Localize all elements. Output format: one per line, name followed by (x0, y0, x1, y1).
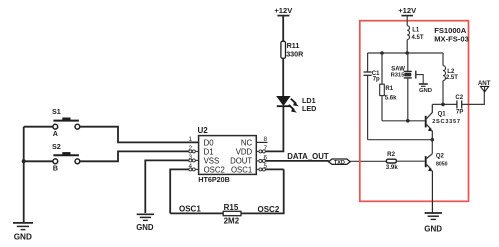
svg-text:C2: C2 (455, 95, 463, 101)
junction L2/collector rail (441, 103, 445, 107)
svg-text:HT6P20B: HT6P20B (198, 175, 230, 184)
svg-text:A: A (53, 129, 58, 138)
svg-text:TXD: TXD (334, 160, 345, 166)
capacitor C1 (364, 53, 381, 140)
svg-text:+12V: +12V (274, 6, 293, 15)
wire +12V into module (406, 16, 408, 26)
svg-text:5: 5 (264, 163, 268, 170)
port TXD (329, 159, 351, 166)
IC U2 HT6P20B (198, 126, 257, 184)
wire emitter rail to C1 (368, 139, 433, 141)
inductor L1 (407, 26, 424, 41)
resistor R2 (386, 151, 425, 171)
LED LD1 (277, 96, 317, 113)
switch S1 (52, 107, 80, 138)
svg-text:2: 2 (189, 145, 193, 152)
svg-text:L1: L1 (412, 27, 420, 33)
transistor Q2 8050 (426, 154, 448, 213)
pin 8 stub NC (256, 136, 267, 143)
svg-text:D1: D1 (204, 147, 214, 156)
wire Q1 emitter to Q2 collector (431, 140, 433, 154)
svg-text:VDD: VDD (236, 147, 253, 156)
junction L1/SAW/top rail (405, 51, 409, 55)
svg-text:+12V: +12V (398, 6, 417, 15)
svg-text:8: 8 (264, 136, 268, 143)
svg-text:R15: R15 (224, 203, 239, 212)
svg-text:R1: R1 (385, 86, 393, 92)
ground GND (SAW case) (419, 84, 432, 94)
svg-text:MX-FS-03: MX-FS-03 (434, 35, 469, 44)
junction Q1 emitter / C1 rail (431, 138, 435, 142)
svg-text:B: B (53, 164, 58, 173)
SAW case electrode to GND (416, 71, 423, 84)
svg-text:4: 4 (189, 163, 193, 170)
svg-text:VSS: VSS (204, 156, 220, 165)
pin 7 pads (256, 145, 267, 153)
svg-text:DOUT: DOUT (230, 156, 252, 165)
wire S1 left terminal to rail (24, 126, 53, 128)
transistor Q1 2SC3357 (426, 104, 461, 139)
svg-text:2SC3357: 2SC3357 (432, 119, 461, 125)
svg-text:3.9k: 3.9k (386, 164, 399, 171)
svg-text:S2: S2 (52, 142, 61, 151)
wire Q1 base rail (382, 120, 425, 122)
svg-text:OSC1: OSC1 (179, 204, 201, 213)
svg-text:SAW: SAW (391, 66, 405, 72)
power +12V (over R11) (274, 6, 293, 16)
svg-text:LED: LED (302, 104, 316, 113)
wire S2 to pin 2 of U2 (80, 151, 189, 161)
wire TXD to R2 (350, 160, 386, 162)
svg-text:OSC2: OSC2 (204, 165, 225, 174)
wire C2 to antenna (462, 92, 484, 105)
wire LED to pin 7 VDD (266, 106, 283, 151)
svg-text:R2: R2 (387, 151, 395, 158)
resistor R11 (281, 41, 304, 58)
junction S2/rail (22, 159, 26, 163)
resistor R15 (223, 203, 241, 226)
svg-text:NC: NC (241, 138, 253, 147)
capacitor C2 (455, 95, 463, 115)
wire pin 4 OSC2 down to oscillator rail (170, 169, 189, 213)
svg-text:8050: 8050 (436, 162, 448, 168)
svg-text:GND: GND (419, 88, 432, 94)
pin 2 pads (189, 145, 199, 153)
svg-text:2M2: 2M2 (224, 217, 240, 226)
wire S2 left terminal to rail (24, 160, 53, 162)
wire oscillator rail right segment (241, 169, 284, 213)
pin 6 pads (256, 154, 267, 162)
ground GND (middle, VSS) (136, 214, 154, 232)
pin 3 pads (189, 154, 199, 162)
svg-text:3: 3 (189, 154, 193, 161)
svg-text:1: 1 (189, 136, 193, 143)
ground GND (bottom left) (13, 223, 33, 242)
wire tank top rail (368, 52, 443, 54)
svg-text:GND: GND (14, 233, 32, 242)
SAW resonator R315 (391, 53, 412, 121)
wire left rail from S1 down to ground (23, 127, 25, 223)
svg-text:S1: S1 (52, 107, 61, 116)
wire S1 to pin 1 of U2 (80, 127, 199, 143)
svg-text:7p: 7p (373, 77, 380, 83)
svg-text:330R: 330R (286, 49, 304, 58)
junction SAW/base rail (406, 119, 410, 123)
svg-text:GND: GND (424, 224, 442, 233)
svg-text:4.5T: 4.5T (412, 35, 424, 41)
antenna ANT (478, 80, 491, 92)
power +12V (module) (398, 6, 417, 16)
svg-text:5.6k: 5.6k (385, 95, 397, 101)
wire +12V to R11 (282, 16, 284, 42)
svg-text:Q1: Q1 (438, 112, 447, 118)
svg-text:GND: GND (136, 223, 154, 232)
wire pin 3 VSS to ground (145, 160, 189, 213)
pin 5 pads (256, 163, 267, 171)
inductor L2 (443, 53, 458, 104)
svg-text:OSC2: OSC2 (258, 205, 280, 214)
wire oscillator rail left segment (170, 212, 223, 214)
svg-text:OSC1: OSC1 (231, 165, 252, 174)
svg-text:7P: 7P (456, 110, 463, 116)
switch S2 (52, 142, 80, 173)
svg-text:Q2: Q2 (436, 154, 445, 160)
wire pin 5 OSC1 to rail corner (266, 168, 284, 170)
junction R1/top rail (380, 51, 384, 55)
svg-text:D0: D0 (204, 138, 215, 147)
wire DOUT to TXD tag (266, 160, 329, 162)
pin 4 pads (189, 163, 199, 171)
svg-text:DATA_OUT: DATA_OUT (287, 152, 329, 161)
resistor R1 (380, 53, 397, 121)
wire L1 to tank rail (406, 40, 408, 54)
svg-text:R315: R315 (391, 73, 406, 79)
svg-text:2.5T: 2.5T (446, 75, 458, 81)
ground GND (Q2 emitter) (424, 213, 442, 233)
wire R11 to LED (282, 59, 284, 96)
module boundary FS1000A (red dashed box) (360, 21, 469, 202)
svg-text:U2: U2 (198, 126, 209, 135)
wire collector rail to C2 (432, 103, 456, 105)
